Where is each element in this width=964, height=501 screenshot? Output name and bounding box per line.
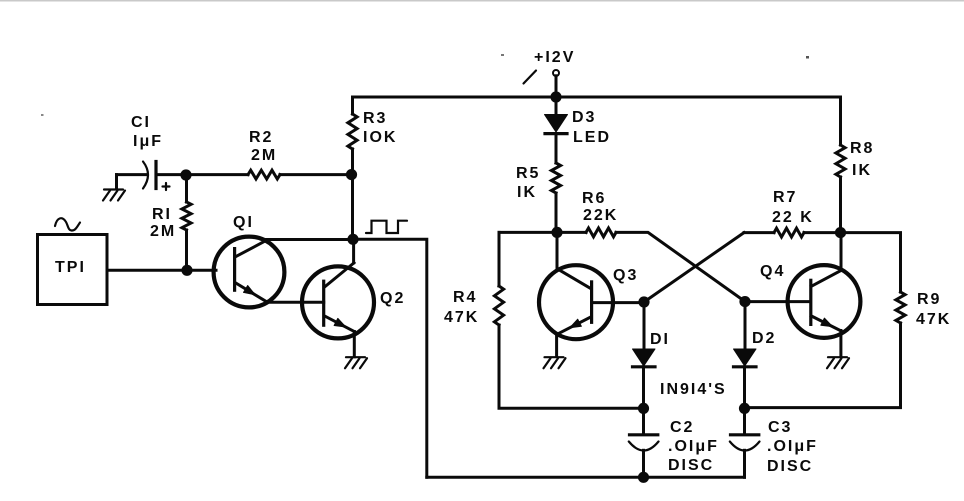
svg-text:R5: R5: [516, 165, 540, 182]
svg-text:TPI: TPI: [55, 259, 86, 276]
svg-text:22K: 22K: [583, 207, 618, 224]
svg-text:2M: 2M: [150, 223, 176, 240]
svg-text:Q4: Q4: [760, 263, 785, 280]
svg-text:R2: R2: [249, 129, 273, 146]
svg-text:R8: R8: [850, 140, 874, 157]
svg-text:DISC: DISC: [767, 458, 813, 475]
svg-text:Q2: Q2: [380, 290, 405, 307]
svg-text:IOK: IOK: [363, 129, 397, 146]
svg-text:D2: D2: [752, 330, 776, 347]
svg-text:R3: R3: [363, 110, 387, 127]
svg-text:47K: 47K: [916, 311, 951, 328]
svg-text:D3: D3: [572, 109, 596, 126]
svg-text:Q3: Q3: [613, 267, 638, 284]
svg-text:IN9I4'S: IN9I4'S: [660, 381, 727, 398]
svg-text:C2: C2: [670, 419, 694, 436]
svg-text:IμF: IμF: [133, 133, 163, 150]
svg-text:R9: R9: [917, 291, 941, 308]
svg-text:LED: LED: [573, 129, 611, 146]
svg-text:47K: 47K: [444, 309, 479, 326]
svg-text:22 K: 22 K: [772, 209, 814, 226]
svg-text:.OIμF: .OIμF: [668, 438, 719, 455]
svg-text:IK: IK: [517, 184, 537, 201]
svg-text:R6: R6: [582, 190, 606, 207]
svg-text:RI: RI: [152, 206, 172, 223]
svg-text:.OIμF: .OIμF: [767, 438, 818, 455]
svg-text:C3: C3: [768, 419, 792, 436]
svg-text:IK: IK: [852, 162, 872, 179]
svg-text:2M: 2M: [251, 147, 277, 164]
svg-text:R7: R7: [773, 189, 797, 206]
svg-text:+I2V: +I2V: [534, 49, 575, 66]
svg-text:DISC: DISC: [668, 457, 714, 474]
svg-text:CI: CI: [131, 114, 151, 131]
svg-text:DI: DI: [650, 331, 670, 348]
svg-text:QI: QI: [233, 214, 254, 231]
svg-text:R4: R4: [453, 289, 477, 306]
